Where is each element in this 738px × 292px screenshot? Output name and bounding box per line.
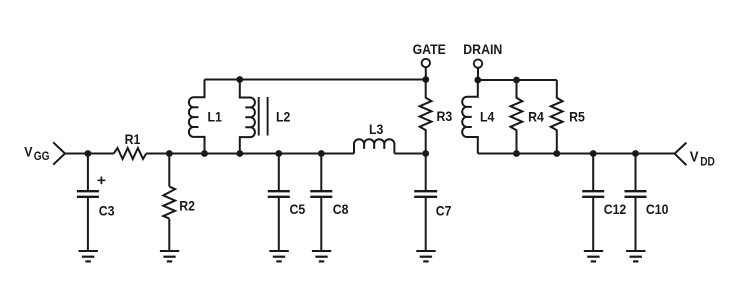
ground (C12): [584, 251, 603, 261]
svg-text:V: V: [24, 144, 32, 160]
ground (C8): [312, 251, 331, 261]
wire C3 bottom lead: [87, 198, 89, 251]
ground (R2): [160, 251, 179, 261]
svg-text:DD: DD: [700, 156, 715, 169]
svg-text:GG: GG: [34, 151, 50, 164]
svg-text:C8: C8: [333, 201, 349, 217]
svg-text:R4: R4: [528, 109, 544, 125]
inductor L2: [240, 80, 255, 154]
capacitor C8: [310, 191, 332, 197]
wire L3 to gate node: [394, 153, 425, 155]
wire C12 bottom lead: [592, 198, 594, 251]
plus sign of C3: [98, 177, 106, 185]
wire C12 top lead: [592, 154, 594, 191]
wire C10 bottom lead: [635, 198, 637, 251]
label DRAIN: [463, 41, 502, 57]
ground (C10): [626, 251, 645, 261]
resistor R4: [511, 80, 523, 154]
core bar 2 of L2: [267, 97, 269, 136]
svg-text:R5: R5: [569, 109, 585, 125]
wire main rail (R1 to L3): [146, 153, 354, 155]
wire drain top rail: [478, 79, 557, 81]
terminal DRAIN (circle): [474, 59, 482, 67]
svg-text:C10: C10: [646, 201, 669, 217]
label R5: [569, 109, 585, 125]
label C5: [290, 201, 306, 217]
node C8 junction: [318, 150, 325, 157]
wire gate top rail: [205, 79, 426, 81]
resistor R2: [163, 187, 175, 219]
node gate top rail junction: [422, 76, 429, 83]
node R5 bottom junction: [553, 150, 560, 157]
label GATE: [413, 41, 446, 57]
svg-text:L3: L3: [369, 121, 383, 137]
inductor L3: [354, 139, 394, 153]
wire R2 bottom lead: [168, 219, 170, 251]
capacitor C12: [582, 191, 604, 197]
node L4 top junction: [474, 77, 481, 84]
node C10 junction: [632, 150, 639, 157]
label VGG: [24, 144, 49, 164]
label C8: [333, 201, 349, 217]
wire C5 top lead: [278, 154, 280, 191]
wire C3 top lead: [87, 154, 89, 191]
resistor R5: [551, 80, 563, 154]
label R4: [528, 109, 544, 125]
label C7: [436, 203, 452, 219]
wire DRAIN lead: [477, 68, 479, 80]
ground (C3): [79, 251, 98, 261]
inductor L4: [462, 80, 478, 154]
node R4 bottom junction: [513, 150, 520, 157]
node C5 junction: [275, 150, 282, 157]
svg-text:C7: C7: [436, 203, 452, 219]
wire C8 top lead: [320, 154, 322, 191]
wire C8 bottom lead: [320, 198, 322, 251]
node R3/C7 junction: [422, 150, 429, 157]
svg-text:C5: C5: [290, 201, 306, 217]
wire GATE lead: [425, 67, 427, 79]
node L2 top junction: [236, 76, 243, 83]
terminal VGG (input chevron): [53, 142, 65, 164]
node C12 junction: [590, 150, 597, 157]
terminal GATE (circle): [422, 59, 430, 67]
wire C7 top lead: [425, 154, 427, 191]
wire C5 bottom lead: [278, 198, 280, 251]
label C10: [646, 201, 669, 217]
inductor L1: [189, 80, 205, 154]
node R4 top junction: [513, 77, 520, 84]
svg-text:R1: R1: [125, 131, 141, 147]
svg-text:DRAIN: DRAIN: [463, 41, 502, 57]
label L2: [276, 109, 290, 125]
wire R2 top lead: [168, 154, 170, 187]
label L4: [480, 109, 495, 125]
capacitor C10: [625, 191, 647, 197]
ground (C5): [269, 251, 288, 261]
node R2 junction: [166, 150, 173, 157]
node L1 bottom junction: [201, 150, 208, 157]
svg-text:R3: R3: [437, 108, 453, 124]
label R3: [437, 108, 453, 124]
svg-text:L2: L2: [276, 109, 290, 125]
svg-text:C12: C12: [604, 201, 627, 217]
node L2 bottom junction: [236, 150, 243, 157]
label C3: [99, 203, 115, 219]
label L1: [208, 109, 222, 125]
svg-text:L1: L1: [208, 109, 222, 125]
terminal VDD (output chevron): [675, 143, 687, 166]
svg-text:R2: R2: [179, 198, 195, 214]
capacitor C7: [414, 191, 437, 197]
label R1: [125, 131, 141, 147]
label VDD: [690, 148, 715, 169]
label C12: [604, 201, 627, 217]
svg-text:V: V: [690, 148, 699, 165]
wire drain bottom rail: [478, 153, 675, 155]
core bar 1 of L2: [258, 97, 260, 136]
svg-text:C3: C3: [99, 203, 115, 219]
wire C7 bottom lead: [425, 198, 427, 251]
ground (C7): [416, 251, 435, 261]
node C3 junction: [85, 150, 92, 157]
capacitor C5: [268, 191, 290, 197]
label L3: [369, 121, 383, 137]
wire main rail left (VGG to R1): [65, 153, 114, 155]
wire C10 top lead: [635, 154, 637, 191]
capacitor C3: [77, 191, 99, 197]
resistor R3: [420, 80, 432, 154]
svg-text:L4: L4: [480, 109, 495, 125]
resistor R1: [114, 148, 147, 159]
label R2: [179, 198, 195, 214]
svg-text:GATE: GATE: [413, 41, 446, 57]
